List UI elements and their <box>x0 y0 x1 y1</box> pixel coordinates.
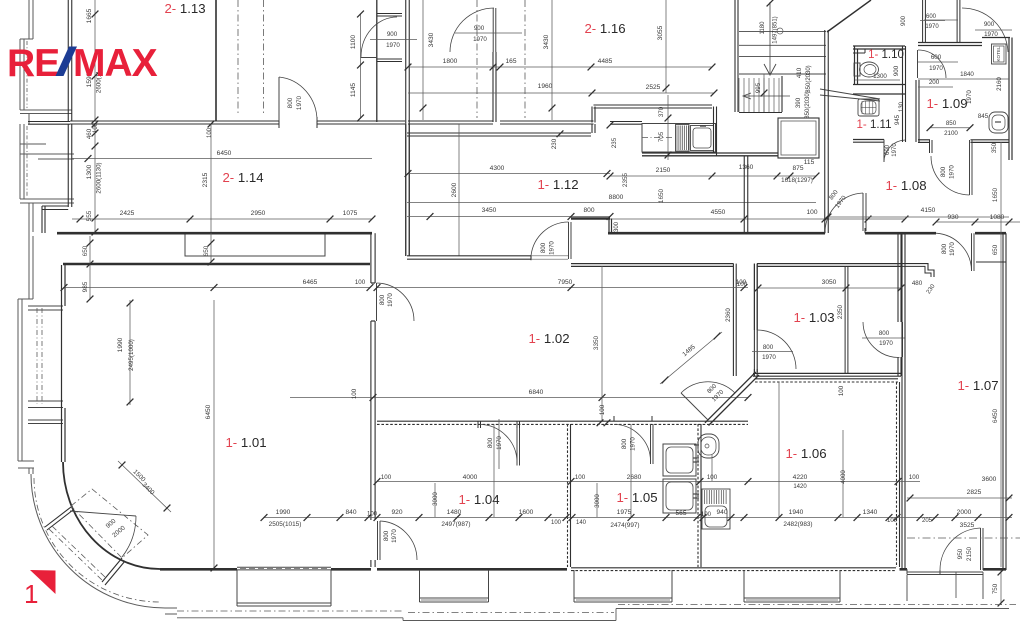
shaft box <box>778 118 819 158</box>
svg-text:1970: 1970 <box>549 241 556 255</box>
dim 600 1970 shaft top <box>920 20 945 22</box>
svg-text:940: 940 <box>716 509 727 516</box>
wall curved facade southwest outer <box>31 474 165 608</box>
svg-text:950: 950 <box>957 548 964 559</box>
wall bottom right y569 <box>900 568 908 571</box>
svg-text:1340: 1340 <box>863 509 878 516</box>
wall hidden room divider x216 <box>215 0 217 121</box>
svg-text:1360: 1360 <box>739 164 754 171</box>
wall 2-1.13 east face x377 <box>376 0 378 122</box>
svg-text:RE: RE <box>7 42 59 85</box>
wall 1-1.01 north y265 <box>63 263 370 266</box>
svg-text:1975: 1975 <box>617 509 632 516</box>
door 800/1970 1-1.03 west <box>754 330 756 369</box>
wall 2-1.16 south west part <box>408 120 493 122</box>
dim 995 left of stairs <box>763 74 765 112</box>
svg-text:230: 230 <box>551 138 558 149</box>
svg-text:1940: 1940 <box>789 509 804 516</box>
svg-text:100: 100 <box>575 474 586 481</box>
window bay 3 <box>573 570 575 602</box>
boiler KOTEL <box>992 44 1007 64</box>
svg-text:2350: 2350 <box>837 304 844 319</box>
door 900/1970 between 2-1.13 and 2-1.16 <box>377 13 402 15</box>
stair lower flight treads <box>738 78 740 112</box>
svg-text:2495(1000): 2495(1000) <box>128 339 135 371</box>
svg-text:800: 800 <box>940 166 947 177</box>
svg-text:800: 800 <box>487 437 494 448</box>
double sink 1-1.05 upper <box>663 444 696 476</box>
wall 1-1.07 west x903 <box>901 233 903 568</box>
facade bottom outer right <box>618 604 1016 606</box>
door 600/1970 corridor to 1-1.09 <box>917 50 919 78</box>
dim 1500/3400 diagonal <box>118 461 171 512</box>
wall outer right top <box>982 37 1010 39</box>
svg-text:930: 930 <box>947 214 958 221</box>
svg-text:1970: 1970 <box>925 24 939 30</box>
svg-text:1075: 1075 <box>343 210 358 217</box>
svg-text:1- 1.11: 1- 1.11 <box>857 119 892 131</box>
svg-text:1970: 1970 <box>879 340 893 347</box>
wall 1-1.03 east x899 <box>897 233 899 322</box>
svg-text:2315: 2315 <box>202 172 209 187</box>
entrance recess sides <box>906 575 908 602</box>
svg-text:6450: 6450 <box>992 408 999 423</box>
axis dash-dot 2-1.13 a <box>237 0 239 116</box>
door 800/1970 1-1.08 west entry <box>824 228 826 233</box>
axis dash-dot 2-1.16 a <box>476 0 478 118</box>
window bay 1 <box>237 566 331 568</box>
svg-text:1480: 1480 <box>447 509 462 516</box>
door 800/1970 1-1.03 east <box>902 322 904 357</box>
svg-text:845: 845 <box>978 113 989 120</box>
svg-text:800: 800 <box>540 242 547 253</box>
dim 3050 <box>758 287 901 289</box>
wall left facade lower <box>28 236 30 299</box>
svg-text:1300: 1300 <box>873 73 887 80</box>
svg-text:1970: 1970 <box>473 36 487 43</box>
svg-text:555: 555 <box>86 210 93 221</box>
wall dashed y422 1-1.04 1-1.05 north <box>377 420 748 422</box>
svg-text:800: 800 <box>621 438 628 449</box>
svg-text:100: 100 <box>381 474 392 481</box>
dim 8800 <box>407 202 816 204</box>
kitchen stove hatched <box>676 125 690 152</box>
wall 1-1.12 closet y218 <box>571 217 610 220</box>
dim 7950 100b <box>377 287 748 289</box>
svg-text:600: 600 <box>926 14 937 20</box>
door 800/1970 1-1.04 bottom <box>370 521 372 560</box>
svg-text:100: 100 <box>551 520 562 526</box>
dim 370 705 chain <box>667 95 669 160</box>
dim 2825 <box>907 497 1012 499</box>
svg-text:2360: 2360 <box>725 308 732 322</box>
svg-text:1970: 1970 <box>387 293 394 307</box>
wall bottom main y569 <box>160 568 237 571</box>
wall dashed 1-1.06 west diagonal <box>705 379 755 423</box>
svg-text:2425: 2425 <box>120 210 135 217</box>
axis curved facade dash-dot <box>34 478 160 602</box>
dim 850 2100 845 <box>930 127 970 129</box>
dim row 4550 100 <box>610 218 905 220</box>
svg-text:3050: 3050 <box>822 279 837 286</box>
svg-text:1100: 1100 <box>350 35 357 50</box>
svg-text:800: 800 <box>383 530 390 541</box>
svg-text:2160: 2160 <box>996 77 1003 91</box>
wall dashed 1-1.06 north y380 <box>755 378 898 380</box>
svg-text:2600: 2600 <box>451 182 458 197</box>
dim row 1960 2525 <box>408 92 714 94</box>
svg-text:1990: 1990 <box>276 509 291 516</box>
svg-text:1970: 1970 <box>762 354 776 361</box>
svg-text:850(2030): 850(2030) <box>805 91 811 118</box>
shaft top right <box>922 0 924 43</box>
svg-text:875: 875 <box>792 165 803 172</box>
svg-text:945: 945 <box>895 114 901 125</box>
dim 750 <box>1000 570 1002 605</box>
wall long y264 from x571 <box>571 263 734 265</box>
svg-text:900: 900 <box>387 31 398 38</box>
svg-text:390: 390 <box>795 97 802 108</box>
dim 2315 <box>210 124 212 233</box>
svg-text:2150: 2150 <box>656 167 671 174</box>
kitchen unit counter <box>642 124 716 153</box>
door 800/1970 1-1.04 <box>477 421 479 428</box>
svg-text:205: 205 <box>922 518 933 524</box>
dim 1485 diagonal <box>660 332 722 384</box>
svg-text:2474(997): 2474(997) <box>610 522 639 529</box>
wall 2-1.13 east / 2-1.16 west with door <box>405 0 407 256</box>
svg-text:1: 1 <box>24 579 38 609</box>
dim 3055 <box>665 0 667 93</box>
svg-text:800: 800 <box>287 97 294 108</box>
svg-text:460: 460 <box>86 128 93 139</box>
dim 3430 a <box>422 0 424 120</box>
dim 1665 chain left <box>94 0 96 120</box>
svg-text:300: 300 <box>614 221 620 232</box>
svg-text:370: 370 <box>658 106 665 117</box>
svg-text:800: 800 <box>879 330 890 337</box>
svg-text:1- 1.09: 1- 1.09 <box>926 96 967 111</box>
svg-text:1- 1.05: 1- 1.05 <box>616 490 657 505</box>
svg-text:2150: 2150 <box>966 546 973 561</box>
svg-text:3350: 3350 <box>593 335 600 350</box>
facade bottom outer mid <box>408 612 614 614</box>
svg-text:800: 800 <box>583 207 594 214</box>
svg-text:1618(1297): 1618(1297) <box>781 177 813 184</box>
wall nook y262 <box>976 261 1006 263</box>
svg-text:1650: 1650 <box>658 188 665 203</box>
wall y154 east to stair <box>715 152 778 154</box>
dim verticals rooms <box>434 483 436 517</box>
wall 1-1.09 south y140 with door <box>918 139 930 141</box>
svg-text:2- 1.16: 2- 1.16 <box>584 21 625 36</box>
svg-text:1- 1.06: 1- 1.06 <box>785 446 826 461</box>
dim 3350 <box>601 266 603 421</box>
door 800/1970 1-1.01 to hall <box>371 282 375 284</box>
svg-text:3000: 3000 <box>594 494 601 508</box>
dim row main bottom <box>264 517 1012 519</box>
dim 985 650 chain <box>89 236 91 300</box>
svg-text:1970: 1970 <box>386 42 400 49</box>
svg-text:1970: 1970 <box>949 165 956 179</box>
svg-text:1600: 1600 <box>519 509 534 516</box>
dim 650 nook <box>1000 233 1002 263</box>
svg-text:1970: 1970 <box>892 143 898 157</box>
wall 2-1.13 south y121 <box>70 120 279 122</box>
dim row 3450 800 <box>407 216 610 218</box>
svg-text:1970: 1970 <box>630 437 637 451</box>
window bay 2 <box>419 570 421 602</box>
svg-text:1650: 1650 <box>992 187 999 202</box>
svg-text:4150: 4150 <box>921 207 936 214</box>
svg-text:100: 100 <box>351 388 358 399</box>
svg-text:1145: 1145 <box>350 83 357 98</box>
dim 6840 <box>290 397 748 399</box>
facade bottom outer left <box>177 610 402 612</box>
wall nook jog 1-1.07 <box>901 264 934 277</box>
wall 1-1.12 west x407 <box>405 124 407 256</box>
dim 1990 2495(1000) window <box>129 300 131 405</box>
svg-text:800: 800 <box>379 294 386 305</box>
wall hall north y257 <box>407 255 531 257</box>
wall diagonal hall corner <box>705 372 756 423</box>
svg-text:650: 650 <box>992 244 999 255</box>
svg-text:1300: 1300 <box>86 164 93 179</box>
wall dashed 1-1.06 east x898 <box>896 382 898 567</box>
wall 2-1.13 2-1.14 west <box>67 0 69 121</box>
svg-text:650: 650 <box>203 245 210 256</box>
window bay 1-1.01 west <box>28 305 63 307</box>
svg-text:1960: 1960 <box>538 83 553 90</box>
wall 1-1.03 mid x846 <box>844 266 846 374</box>
wall 1-1.12 north y133 <box>407 132 591 134</box>
dim row 1800 165 4485 <box>408 66 712 68</box>
svg-text:2482(983): 2482(983) <box>783 521 812 528</box>
svg-text:1970: 1970 <box>966 90 973 104</box>
svg-text:1- 1.02: 1- 1.02 <box>528 331 569 346</box>
svg-text:1970: 1970 <box>929 65 943 72</box>
wall 2-1.14 south y233 <box>57 232 372 235</box>
dim 1840 1970 2160 <box>918 78 1009 80</box>
dim 1650 right <box>1000 142 1002 233</box>
door 600/1970 1-1.11 <box>883 140 885 163</box>
svg-text:985: 985 <box>82 281 89 292</box>
dim row 2150 1360 875 115 <box>610 175 816 177</box>
svg-text:1990: 1990 <box>117 337 124 352</box>
svg-text:MAX: MAX <box>73 42 158 85</box>
svg-text:2825: 2825 <box>967 489 982 496</box>
svg-text:100: 100 <box>887 518 898 524</box>
dim rows mid 100 2680 4220 4000 <box>377 481 920 483</box>
svg-text:350: 350 <box>991 142 998 153</box>
wall curved 1-1.01 southwest inner <box>63 462 160 569</box>
door 800/1970 1-1.05 <box>613 416 615 421</box>
dim 1100 1145 chain <box>360 14 362 118</box>
svg-text:8800: 8800 <box>609 194 624 201</box>
dim 3430 b <box>551 0 553 120</box>
stair direction line <box>744 95 790 97</box>
svg-text:1- 1.04: 1- 1.04 <box>458 492 499 507</box>
svg-text:920: 920 <box>391 509 402 516</box>
dim 200 <box>918 86 953 88</box>
svg-text:100: 100 <box>838 385 845 396</box>
svg-text:6450: 6450 <box>217 150 232 157</box>
svg-text:6840: 6840 <box>529 389 544 396</box>
dim 6465 100 <box>64 287 370 289</box>
dim 6450 2-1.14 <box>72 158 372 160</box>
wall dashed divider x569 <box>567 424 569 567</box>
svg-text:115: 115 <box>804 159 815 166</box>
toilet 1-1.10 <box>854 63 860 76</box>
axis dash-dot 1-1.07 south <box>907 537 1020 539</box>
wedge mark under stairs <box>820 89 880 99</box>
wall 1-1.03 south y374 <box>753 372 901 374</box>
svg-text:650: 650 <box>82 245 89 256</box>
svg-text:1180: 1180 <box>760 21 766 35</box>
level marker 1 <box>30 570 56 594</box>
svg-text:130: 130 <box>899 101 905 112</box>
svg-text:480: 480 <box>912 280 923 287</box>
svg-text:900: 900 <box>901 15 907 26</box>
wall corridor bath x905 x918 <box>902 46 904 142</box>
svg-text:100: 100 <box>93 122 99 133</box>
diagonal wall top right of stairs <box>827 0 871 32</box>
wall stairwell west x736 <box>734 0 736 112</box>
svg-text:3525: 3525 <box>960 522 975 529</box>
svg-text:2525: 2525 <box>646 84 661 91</box>
svg-text:1420: 1420 <box>793 484 807 490</box>
washbasin 1-1.05 <box>698 434 719 458</box>
svg-text:100: 100 <box>701 512 712 518</box>
svg-text:4485: 4485 <box>598 58 613 65</box>
wall main long y233 mid <box>608 232 825 235</box>
svg-text:1800: 1800 <box>443 58 458 65</box>
svg-text:2000: 2000 <box>957 509 972 516</box>
svg-text:2- 1.13: 2- 1.13 <box>164 1 205 16</box>
svg-text:800: 800 <box>941 243 948 254</box>
balcony door 900/2000 <box>45 507 71 527</box>
svg-text:850: 850 <box>946 120 957 127</box>
svg-text:2100: 2100 <box>944 130 958 137</box>
door 800/1970 1-1.12 south <box>530 256 532 260</box>
balcony 2-1.14 <box>185 235 325 257</box>
wall dashed divider x699 <box>697 424 699 567</box>
svg-text:100: 100 <box>367 512 378 518</box>
svg-text:840: 840 <box>345 509 356 516</box>
wall below kitchen y154 <box>642 152 715 154</box>
svg-text:900: 900 <box>984 21 995 28</box>
wall corridor x734 <box>732 264 734 376</box>
svg-text:100: 100 <box>355 279 366 286</box>
wall bath suite west x826 <box>824 30 826 233</box>
svg-text:2355: 2355 <box>622 172 629 187</box>
wall 1-1.03 west x755 <box>753 264 755 330</box>
svg-text:1970: 1970 <box>296 95 303 110</box>
stair arrow down <box>769 2 771 74</box>
svg-text:1970: 1970 <box>496 436 503 450</box>
wall 1-1.10 box <box>853 45 905 47</box>
stair landing treads <box>739 31 826 33</box>
svg-text:3450: 3450 <box>482 207 497 214</box>
svg-text:100: 100 <box>599 404 606 415</box>
svg-text:1- 1.07: 1- 1.07 <box>957 378 998 393</box>
wall divider x373 big <box>370 233 372 283</box>
svg-text:100: 100 <box>806 209 817 216</box>
double sink 1-1.05 lower <box>663 479 696 513</box>
svg-text:2497(987): 2497(987) <box>441 521 470 528</box>
door 800/1970 in wall y122 to 2-1.14 <box>278 117 280 128</box>
dim 6450 1-1.01 <box>213 300 215 568</box>
dim 4150 <box>828 216 1009 218</box>
axis dash-dot 2-1.16 b <box>524 0 526 118</box>
wall 1-1.12 1-1.08 divider x746 <box>743 156 745 233</box>
door 900/1970 top right <box>962 8 1008 52</box>
door 800/1970 1-1.09 to 1-1.08 <box>929 140 931 153</box>
dim row 2425 2950 1075 555 <box>72 218 372 220</box>
svg-text:1- 1.03: 1- 1.03 <box>793 310 834 325</box>
dim 930 1080 <box>936 221 1020 223</box>
axis dash-dot 2-1.13 b <box>263 0 265 116</box>
door 800/1970 diagonal <box>681 393 708 420</box>
kitchen unit 1-1.06 <box>702 489 730 529</box>
svg-text:750: 750 <box>992 583 999 594</box>
svg-text:2- 1.14: 2- 1.14 <box>222 170 263 185</box>
svg-text:1- 1.08: 1- 1.08 <box>885 178 926 193</box>
svg-text:1- 1.01: 1- 1.01 <box>225 435 266 450</box>
wall bottom dashed rooms <box>571 567 896 569</box>
window bay 4 <box>743 570 745 602</box>
svg-text:1970: 1970 <box>949 242 956 256</box>
door 800/1970 1-1.08 to 1-1.07 <box>971 233 973 271</box>
wall floor band y121 left <box>28 121 70 123</box>
svg-text:3600: 3600 <box>982 476 997 483</box>
svg-text:850(2030): 850(2030) <box>806 65 812 92</box>
svg-text:6465: 6465 <box>303 279 318 286</box>
svg-text:6450: 6450 <box>205 404 212 419</box>
svg-text:2505(1015): 2505(1015) <box>269 521 302 528</box>
wall left facade outer skin <box>28 0 30 39</box>
svg-text:3430: 3430 <box>428 32 435 47</box>
svg-text:995: 995 <box>755 82 762 93</box>
svg-text:800: 800 <box>763 344 774 351</box>
svg-text:1665: 1665 <box>86 8 93 23</box>
wall 2-1.14 west <box>67 124 69 207</box>
wall outer right x1005 <box>1002 233 1004 570</box>
wall main long y233 right <box>865 232 936 235</box>
svg-text:705: 705 <box>658 131 665 142</box>
wall 1-1.09 top <box>918 45 982 47</box>
svg-text:4000: 4000 <box>840 470 847 484</box>
svg-text:600: 600 <box>885 144 891 155</box>
kitchen sink <box>691 126 714 151</box>
wall 1-1.03 north y264 <box>757 263 901 265</box>
svg-text:600: 600 <box>931 54 942 61</box>
svg-text:1970: 1970 <box>391 529 398 543</box>
svg-text:100: 100 <box>909 474 920 481</box>
svg-text:1840: 1840 <box>960 71 974 78</box>
svg-text:4220: 4220 <box>793 474 808 481</box>
svg-text:100: 100 <box>736 279 747 286</box>
wall 2-1.16 west door 900/1970 <box>492 52 494 122</box>
wall kitchen niche <box>610 121 642 123</box>
svg-text:2680: 2680 <box>627 474 642 481</box>
svg-text:KOTEL: KOTEL <box>996 46 1001 62</box>
svg-text:2950: 2950 <box>251 210 266 217</box>
svg-text:1- 1.10: 1- 1.10 <box>868 49 904 61</box>
svg-text:900: 900 <box>474 25 485 32</box>
svg-text:1- 1.12: 1- 1.12 <box>537 177 578 192</box>
dim 6450 1-1.07 <box>1000 263 1002 567</box>
